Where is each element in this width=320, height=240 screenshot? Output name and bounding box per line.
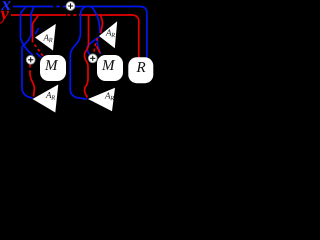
wire: red dashed from apex of amp U2 into adder S3 <box>94 38 98 53</box>
wire: red stub into box M2 top-left corner <box>97 46 101 53</box>
wire: blue input line from x (top horizontal, dashed before adder S1, corner at top right, down to box R) <box>13 7 147 58</box>
wire: red dashed from apex of U1 under box M1 corner <box>35 45 44 57</box>
amp U3 (A_R, bottom left triangle) <box>33 85 59 113</box>
adder S3 (plus circle, middle right) <box>88 54 97 63</box>
label A_R in amp U2 <box>106 30 112 36</box>
amp U1 (A_R, top left triangle) <box>35 24 56 51</box>
wire: red branch R3 from red line into apex of amp U2 <box>100 15 103 33</box>
label A_R in amp U4 <box>105 93 111 99</box>
label R in box R <box>136 62 145 72</box>
adder S1 (plus circle on blue line, top) <box>66 2 75 11</box>
wire: blue branch B2 from top line crossing B1 down to apex of amp U3 <box>22 7 34 99</box>
wire: red branch R1 from red line down to apex of amp U1 <box>33 15 39 43</box>
label A_R in amp U1 <box>43 35 49 41</box>
amp U2 (A_R, top right triangle) <box>99 21 117 48</box>
wire: blue branch B1 from top line down left side into adder S2 <box>21 7 34 56</box>
box M2 (delay M) <box>97 55 123 81</box>
wire: red output of adder S2, dashed below circle then curving into apex of amp U3 <box>29 65 31 74</box>
background <box>0 0 154 113</box>
label M in box M2 <box>102 60 115 70</box>
wire: blue branch B3 from top line diagonally into apex of amp U2 and on to box M2 corner <box>92 7 100 34</box>
wire: red branch Rm1 from red line, swerving left of adder S3, down into apex of amp U4 <box>85 15 89 98</box>
box R (reverberator R) <box>128 57 153 83</box>
label x (blue input) <box>1 1 10 10</box>
adder S2 (plus circle, middle left) <box>26 55 35 64</box>
wire: red input line from y (horizontal, dashed under adder S1 zone, corner at top right, down to box R) <box>11 15 139 58</box>
box M1 (delay M) <box>40 55 66 81</box>
amp U4 (A_R, bottom right triangle) <box>88 88 115 112</box>
wire: blue middle S-curve down to apex of amp U4 <box>70 7 87 100</box>
label M in box M1 <box>45 60 58 70</box>
wire: blue branch Bm1 from top line down middle into adder S3 <box>87 37 99 55</box>
wire: blue stub toward apex of amp U1 from north-east <box>35 28 38 34</box>
wire: blue stub into box M1 top-left corner <box>37 53 42 58</box>
label A_R in amp U3 <box>46 92 52 98</box>
label y (red input) <box>0 11 9 24</box>
